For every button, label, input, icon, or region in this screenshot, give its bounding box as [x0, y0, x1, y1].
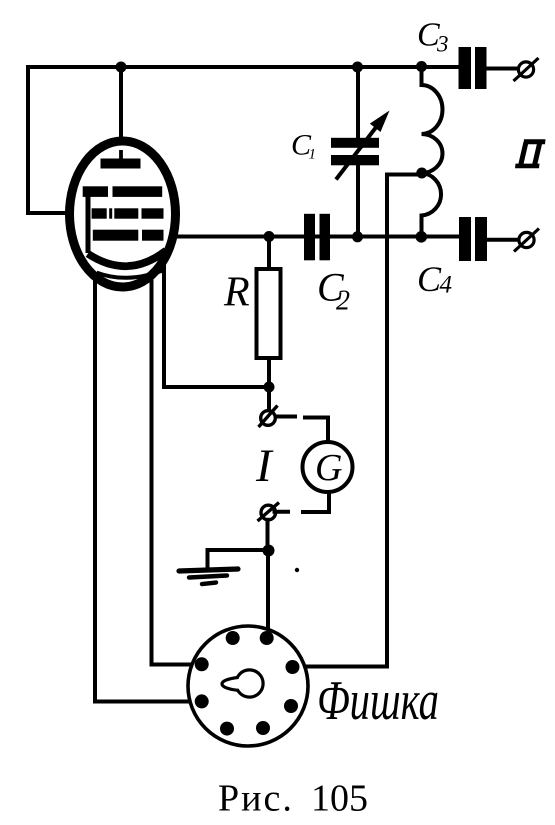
svg-text:3: 3 — [436, 32, 449, 57]
svg-text:Рис.: Рис. — [218, 778, 294, 820]
svg-text:105: 105 — [311, 778, 368, 820]
svg-text:I: I — [255, 440, 274, 492]
svg-text:Фишка: Фишка — [317, 670, 439, 732]
svg-text:C: C — [417, 259, 442, 299]
svg-text:2: 2 — [336, 286, 350, 317]
svg-text:1: 1 — [309, 147, 317, 163]
svg-text:R: R — [223, 270, 250, 316]
svg-text:G: G — [315, 447, 342, 489]
svg-text:4: 4 — [440, 272, 453, 299]
